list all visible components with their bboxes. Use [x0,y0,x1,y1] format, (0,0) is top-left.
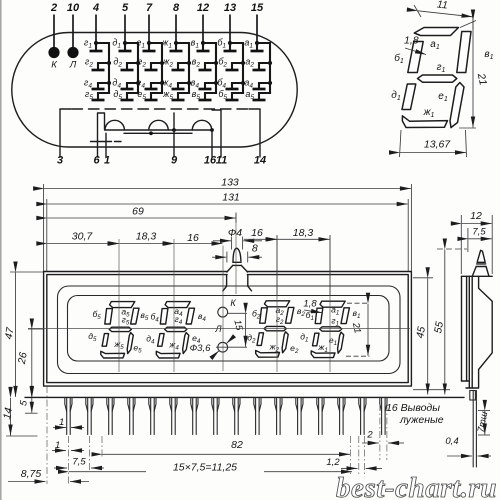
wire pin3 to grid [60,109,71,157]
svg-text:Ф3,6: Ф3,6 [190,343,211,354]
node К (cathode terminal, pin 2) [48,47,59,58]
svg-text:18,3: 18,3 [136,231,157,243]
svg-text:0,4: 0,4 [445,436,458,447]
package outer rectangle [44,272,412,387]
lead 11 (front view) [277,398,281,435]
centre line digit 2 [276,236,278,372]
side view lead lug [470,391,476,401]
svg-text:Л: Л [214,324,222,334]
dimension 131 [47,203,407,205]
centre line dots К/Л [222,246,224,372]
digit detail: segment а1 (top) [414,28,458,36]
extension lines left [10,271,43,273]
svg-text:30,7: 30,7 [72,231,94,243]
svg-text:133: 133 [221,177,239,189]
extension lines top [43,184,45,271]
svg-text:7,5: 7,5 [72,457,86,468]
pin shoulder line [25,396,464,398]
Ф4 arrows [231,237,233,250]
svg-text:69: 69 [132,206,144,218]
lead 7 (front view) [193,398,197,435]
anode group а (segments а1,а2,а4,а5) [244,38,272,102]
svg-text:1: 1 [59,417,64,428]
svg-text:8: 8 [173,2,180,14]
segment б1 (top-left) [408,42,423,73]
dimension 15 (dot spacing) [228,312,247,314]
anode group ж (segments ж1,ж2,ж4,ж5) [161,38,191,102]
lead 16 (front view) [382,398,386,435]
svg-text:Л: Л [69,60,77,71]
svg-text:14: 14 [254,155,266,167]
svg-text:4: 4 [92,2,99,14]
dimension 133 [44,188,411,190]
svg-text:21: 21 [350,321,363,335]
svg-text:15: 15 [251,2,264,14]
dimension 11 (top width, slanted) [414,5,421,17]
wire pin11 to grid [212,110,221,157]
pin 4 (top lead) [95,15,97,52]
svg-text:Ф4: Ф4 [228,227,242,239]
dimension 5 [31,398,33,413]
side view lead [473,391,476,468]
window Л (dot) [218,342,228,352]
svg-text:82: 82 [231,439,243,451]
wire pin14 to grid [249,109,260,157]
pin 15 (top lead) [256,15,258,52]
svg-text:13: 13 [224,2,236,14]
svg-text:1,8: 1,8 [303,299,317,310]
svg-text:55: 55 [432,321,446,335]
display digit 5 (7 segments) [101,302,139,358]
lead 9 (front view) [235,398,239,435]
screen connection marks near pins 6,1 [91,141,112,143]
svg-text:10: 10 [67,2,80,14]
wire pin6 (filament support) [98,113,105,157]
filament (heater wire, 3 arcs) [105,120,124,130]
dimension 16 right [276,235,278,295]
tip aperture mask [228,270,247,277]
dimension 55 [444,250,446,395]
lead 13 (front view) [319,398,323,435]
extension lines right [413,277,433,279]
svg-text:луженые: луженые [399,414,444,426]
side view body (glass) [462,276,473,388]
dimension 18,3 right [329,235,331,295]
display digit 2 (7 segments) [256,301,294,357]
svg-text:16: 16 [251,227,263,239]
svg-text:3: 3 [57,155,63,167]
dimension 7,5 (side) [467,228,469,252]
display digit 4 (7 segments) [156,302,194,358]
lead 6 (front view) [172,398,176,435]
dimension 8 (tip base) [226,252,228,263]
svg-text:18,3: 18,3 [293,227,314,239]
filament support rail [105,129,213,131]
svg-text:8,75: 8,75 [21,468,42,480]
svg-text:14: 14 [1,407,15,421]
svg-text:7,5: 7,5 [472,227,486,238]
dimension 14 [10,398,12,436]
envelope (tube outline, stadium shape) [12,33,297,148]
centre line horizontal [28,328,410,330]
side view back envelope [466,276,492,388]
svg-text:12: 12 [197,2,209,14]
extension dashdot lines bottom [46,386,48,484]
segment ж1 (bottom) [402,116,447,128]
svg-text:1,2: 1,2 [326,457,340,468]
pin 13 (top lead) [229,15,231,52]
dimension 30,7 [47,243,118,245]
pin 2 (top lead) [53,15,55,48]
svg-text:16: 16 [187,232,199,244]
anode group в (segments в1,в2,в4,в5) [191,38,218,102]
display window outline [58,286,401,374]
svg-text:2: 2 [50,2,57,14]
package inner edge [47,275,408,383]
pin 12 (top lead) [202,15,204,52]
svg-text:13,67: 13,67 [424,139,451,151]
svg-text:5: 5 [122,2,129,14]
svg-text:1: 1 [104,155,110,167]
lead 2 (front view) [88,398,92,435]
svg-text:best-chart.ru: best-chart.ru [336,472,497,500]
svg-text:2: 2 [366,430,373,441]
dimension 21 (digit height) [347,302,370,304]
lead 10 (front view) [256,398,260,435]
dimension 13,67 (bottom width) [400,130,402,157]
lead 5 (front view) [151,398,155,435]
wire pin16 (filament) [211,130,213,157]
svg-text:11: 11 [216,155,227,167]
svg-text:45: 45 [414,326,428,340]
pin 5 (top lead) [124,15,126,52]
grid (dashed electrode) [72,108,249,110]
svg-text:8: 8 [252,243,258,255]
anode group д (segments д1,д2,д4,д5) [112,38,140,102]
dimension 26 [31,330,33,397]
centre line digit 5 [118,239,120,372]
anode group г (segments г1,г2,г4,г5) [84,38,111,102]
dimension 12 (side width) [460,215,462,274]
dimension 47 [15,273,17,397]
segment е1 (bottom-right) [450,83,464,128]
dimension 45 [427,278,429,394]
svg-text:7: 7 [146,2,153,14]
lead 1 (front view) [67,398,71,435]
centre line digit 1 [329,236,331,372]
pin 7 (top lead) [148,15,150,52]
window К (dot) [218,307,228,317]
svg-text:11: 11 [436,0,448,12]
dimension 16 left [175,243,223,245]
anode group е (segments е1,е2,е4,е5) [136,38,164,102]
svg-text:1,8: 1,8 [404,35,419,47]
anode group б (segments б1,б2,б4,б5) [217,38,245,102]
node Л (cathode terminal, pin 10) [67,47,78,58]
display digit 1 (7 segments) [311,301,349,357]
lead 3 (front view) [109,398,113,435]
svg-text:К: К [230,298,236,308]
centre line exhaust tip [235,214,237,295]
scan edge left [0,0,2,500]
pin 8 (top lead) [175,15,177,52]
svg-text:16 Выводы: 16 Выводы [386,402,440,414]
dimension 69 [235,213,237,223]
centre line digit 4 [173,239,175,372]
display aperture [68,296,390,362]
svg-text:9: 9 [171,155,178,167]
lead 8 (front view) [214,398,218,435]
dimension 21 (digit height) [460,21,476,28]
svg-text:26: 26 [16,351,30,366]
segment г1 (middle) [418,75,457,82]
dimension 7тш (lead) [478,409,490,411]
dimension 18,3 left [120,243,174,245]
segment д1 (bottom-left) [402,84,416,110]
lead 12 (front view) [298,398,302,435]
pin 10 (top lead) [72,15,74,48]
wire pin9 (filament centre tap) [173,113,175,157]
wire pin1 (filament) [105,133,107,157]
svg-text:15×7,5=11,25: 15×7,5=11,25 [173,462,237,474]
lead 14 (front view) [340,398,344,435]
lead 15 (front view) [361,398,365,435]
segment в1 (top-right) [457,32,471,73]
svg-text:6: 6 [93,155,100,167]
svg-text:12: 12 [470,210,482,222]
lead 4 (front view) [130,398,134,435]
svg-text:1: 1 [55,440,60,451]
svg-text:131: 131 [222,192,240,204]
side view exhaust tip [477,250,485,262]
exhaust tip (top centre) [233,248,241,261]
